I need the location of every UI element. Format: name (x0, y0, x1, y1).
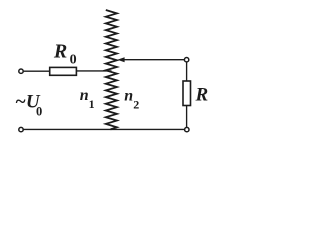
svg-text:0: 0 (36, 105, 42, 119)
svg-text:2: 2 (133, 97, 139, 111)
svg-text:R: R (195, 85, 209, 106)
svg-text:0: 0 (70, 52, 77, 67)
svg-text:n: n (80, 87, 89, 104)
svg-text:R: R (53, 41, 67, 63)
svg-text:n: n (124, 88, 133, 105)
svg-text:1: 1 (89, 97, 95, 111)
